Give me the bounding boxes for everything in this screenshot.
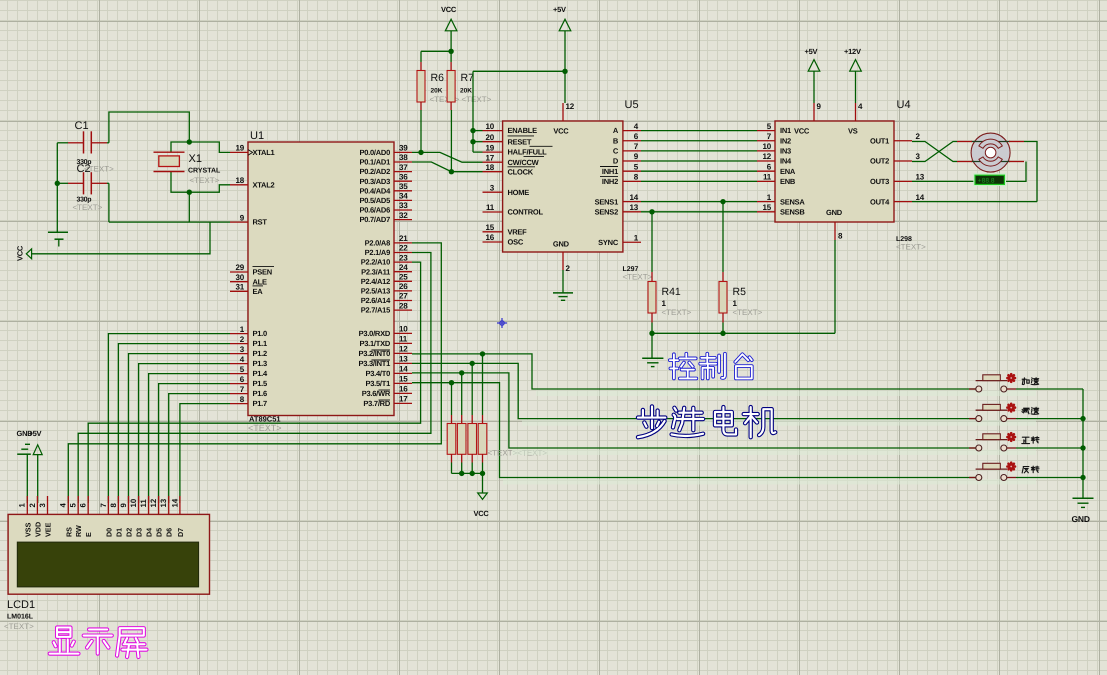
- svg-text:D6: D6: [165, 528, 174, 537]
- svg-text:R41: R41: [662, 286, 681, 298]
- svg-text:P0.3/AD3: P0.3/AD3: [359, 177, 390, 186]
- svg-text:CONTROL: CONTROL: [508, 208, 544, 217]
- svg-text:11: 11: [763, 173, 772, 182]
- svg-text:34: 34: [399, 192, 408, 201]
- svg-text:<TEXT>: <TEXT>: [84, 165, 114, 174]
- svg-text:15: 15: [399, 375, 408, 384]
- label 显示屏 (display): [50, 628, 147, 657]
- svg-text:SENS1: SENS1: [595, 197, 618, 206]
- button SW3 (正转): [969, 433, 1016, 451]
- svg-text:38: 38: [399, 153, 408, 162]
- svg-text:IN1: IN1: [780, 126, 791, 135]
- svg-text:P2.7/A15: P2.7/A15: [361, 306, 390, 315]
- svg-text:P0.1/AD1: P0.1/AD1: [359, 158, 390, 167]
- resistor R7: [447, 62, 492, 110]
- svg-text:13: 13: [630, 203, 639, 212]
- svg-text:32: 32: [399, 211, 408, 220]
- junction SENS2: [649, 209, 654, 214]
- svg-text:P1.7: P1.7: [253, 399, 268, 408]
- svg-text:13: 13: [399, 355, 408, 364]
- U5 GND bottom pin 2: [553, 240, 571, 274]
- wire OUT2 crossing to motor upper-left: [912, 142, 957, 162]
- svg-text:9: 9: [119, 503, 128, 508]
- svg-text:P2.5/A13: P2.5/A13: [361, 287, 390, 296]
- wire resistor pack common: [452, 472, 483, 474]
- wire OUT1 crossing to motor lower-left: [912, 142, 957, 162]
- svg-text:<TEXT>: <TEXT>: [73, 203, 103, 212]
- resistor pack RN1 (4 pull resistors): [447, 354, 547, 474]
- svg-text:E: E: [84, 532, 93, 537]
- svg-text:SENSA: SENSA: [780, 197, 805, 206]
- wire U5 GND down: [562, 270, 564, 293]
- svg-text:P0.2/AD2: P0.2/AD2: [359, 167, 390, 176]
- svg-text:18: 18: [486, 163, 495, 172]
- IC U1 AT89C51 body: [248, 142, 394, 416]
- ground (U5): [553, 293, 573, 300]
- power VCC (top): [441, 5, 457, 31]
- svg-text:28: 28: [399, 301, 408, 310]
- svg-text:VEE: VEE: [44, 522, 53, 537]
- svg-text:INH1: INH1: [602, 167, 618, 176]
- junction CLOCK/R7: [449, 169, 454, 174]
- svg-text:C1: C1: [75, 120, 89, 132]
- LCD1 pin names (rotated): [23, 522, 185, 537]
- junction ENABLE: [470, 128, 475, 133]
- wire SENS1 to SENSA: [641, 201, 757, 203]
- svg-text:24: 24: [399, 263, 408, 272]
- svg-text:39: 39: [399, 144, 408, 153]
- svg-text:<TEXT>: <TEXT>: [662, 308, 692, 317]
- tint bands under button wires (scan artifact): [503, 391, 1036, 485]
- wire P3.5 to button row4: [412, 383, 976, 478]
- svg-text:37: 37: [399, 163, 408, 172]
- junction R41 bottom: [649, 331, 654, 336]
- svg-text:P1.5: P1.5: [253, 379, 268, 388]
- svg-text:12: 12: [566, 102, 575, 111]
- svg-text:D4: D4: [145, 528, 154, 537]
- battery B1 (cell to ground): [48, 232, 68, 246]
- IC U5 L297 body: [503, 121, 623, 252]
- svg-text:20K: 20K: [431, 88, 443, 95]
- junction +5V: [562, 69, 567, 74]
- svg-text:VCC: VCC: [16, 245, 25, 261]
- svg-text:P3.5/T1: P3.5/T1: [365, 379, 390, 388]
- svg-text:16: 16: [399, 385, 408, 394]
- svg-text:RST: RST: [253, 218, 268, 227]
- svg-text:P0.7/AD7: P0.7/AD7: [359, 215, 390, 224]
- svg-text:HOME: HOME: [508, 188, 530, 197]
- svg-text:11: 11: [139, 499, 148, 508]
- svg-text:8: 8: [838, 232, 843, 241]
- svg-text:9: 9: [817, 102, 822, 111]
- svg-text:P2.3/A11: P2.3/A11: [361, 267, 390, 276]
- svg-text:+5V: +5V: [29, 429, 42, 438]
- U1 left pin stubs and numbers: [230, 144, 248, 404]
- wire button SW2 to GND rail: [1016, 418, 1083, 420]
- svg-text:4: 4: [858, 102, 863, 111]
- wire SENS2 to R41: [651, 212, 653, 272]
- svg-text:14: 14: [630, 193, 639, 202]
- wire R7 to CLOCK node: [450, 110, 452, 172]
- svg-text:SYNC: SYNC: [598, 238, 619, 247]
- LCD1 pin numbers (rotated): [18, 498, 180, 507]
- power +12V (above U4): [844, 47, 861, 71]
- svg-text:D0: D0: [104, 528, 113, 537]
- wire buttons GND rail: [1082, 389, 1084, 498]
- svg-text:U4: U4: [897, 99, 911, 111]
- svg-text:26: 26: [399, 282, 408, 291]
- svg-text:10: 10: [763, 142, 772, 151]
- power GND (near LCD): [17, 429, 34, 454]
- svg-text:25: 25: [399, 273, 408, 282]
- svg-text:LCD1: LCD1: [7, 599, 35, 611]
- svg-text:OUT3: OUT3: [870, 177, 889, 186]
- svg-text:C: C: [613, 147, 619, 156]
- svg-text:IN4: IN4: [780, 157, 792, 166]
- digital display +88.8: [974, 174, 1005, 185]
- svg-text:OUT4: OUT4: [870, 197, 890, 206]
- svg-text:LM016L: LM016L: [7, 614, 34, 621]
- wire ENABLE stub link: [473, 130, 483, 132]
- svg-text:EA: EA: [253, 287, 264, 296]
- svg-text:<TEXT>: <TEXT>: [733, 308, 763, 317]
- svg-text:23: 23: [399, 253, 408, 262]
- svg-text:P1.1: P1.1: [253, 339, 268, 348]
- svg-text:1: 1: [733, 299, 738, 308]
- wire button SW4 to GND rail: [1016, 477, 1083, 479]
- svg-text:7: 7: [99, 503, 108, 507]
- wire P2.2 to LCD E: [88, 262, 420, 503]
- svg-text:VCC: VCC: [474, 509, 490, 518]
- svg-text:P2.1/A9: P2.1/A9: [365, 248, 390, 257]
- wire P3.2 to button row1: [412, 354, 976, 389]
- svg-text:4: 4: [59, 503, 68, 508]
- U4 GND bottom pin 8: [826, 208, 843, 241]
- U4 VS top pin 4: [848, 102, 863, 135]
- U5 right pin names: [595, 126, 619, 247]
- svg-text:12: 12: [399, 345, 408, 354]
- U4 left pin names: [780, 126, 805, 216]
- svg-text:P1.6: P1.6: [253, 389, 268, 398]
- svg-text:VS: VS: [848, 126, 858, 135]
- svg-text:INH2: INH2: [602, 177, 618, 186]
- svg-text:GND: GND: [1072, 514, 1090, 524]
- svg-text:2: 2: [566, 264, 571, 273]
- svg-text:19: 19: [486, 143, 495, 152]
- svg-text:P3.0/RXD: P3.0/RXD: [359, 329, 391, 338]
- wire C1-C2 left vertical to battery: [56, 143, 58, 232]
- wire P3.4 to button row3: [412, 373, 976, 448]
- svg-text:17: 17: [399, 395, 408, 404]
- wire common to ground: [651, 333, 653, 358]
- wire +12V to U4 VS: [855, 71, 857, 103]
- junction C1/C2 left: [55, 181, 60, 186]
- svg-text:P0.6/AD6: P0.6/AD6: [359, 206, 390, 215]
- svg-text:P2.6/A14: P2.6/A14: [361, 296, 391, 305]
- wire button SW1 to GND rail: [1016, 388, 1083, 390]
- svg-text:RS: RS: [64, 527, 73, 537]
- wire crystal top tap: [171, 142, 189, 152]
- svg-text:<TEXT>: <TEXT>: [896, 243, 926, 252]
- svg-text:X1: X1: [189, 153, 202, 165]
- svg-text:10: 10: [129, 498, 138, 507]
- svg-text:30: 30: [236, 273, 245, 282]
- svg-text:13: 13: [159, 498, 168, 507]
- svg-text:VCC: VCC: [794, 126, 810, 135]
- power +5V (top): [553, 5, 571, 31]
- wire OUT3 to display: [912, 180, 975, 182]
- svg-text:27: 27: [399, 292, 408, 301]
- svg-text:U1: U1: [250, 130, 264, 142]
- label 步进电机 (stepper motor): [638, 406, 775, 437]
- wire C2 right to RST row: [108, 183, 110, 222]
- junction R5 bottom: [720, 331, 725, 336]
- LCD1 pin stubs: [27, 496, 180, 514]
- power VCC (down arrow under respack): [474, 493, 490, 518]
- U5 left pin names: [508, 126, 553, 246]
- svg-text:11: 11: [399, 335, 408, 344]
- svg-text:10: 10: [399, 325, 408, 334]
- svg-text:15: 15: [486, 223, 495, 232]
- svg-text:35: 35: [399, 182, 408, 191]
- wire P0.1 to CLOCK: [412, 162, 483, 172]
- svg-text:12: 12: [149, 498, 158, 507]
- wire VCC top to R6/R7: [450, 31, 452, 62]
- svg-text:CRYSTAL: CRYSTAL: [188, 168, 221, 175]
- button SW1 (加速): [969, 374, 1016, 392]
- wire HALF/FULL stub link: [473, 151, 483, 153]
- svg-text:VSS: VSS: [23, 522, 32, 537]
- wire C1 right up-over to crystal top: [109, 112, 189, 143]
- svg-text:3: 3: [38, 503, 47, 508]
- svg-text:CLOCK: CLOCK: [508, 167, 534, 176]
- svg-text:D3: D3: [135, 528, 144, 537]
- wire crystal bottom to RST row: [188, 192, 190, 222]
- power +5V (above U4): [805, 47, 820, 71]
- U1 right pin names: [358, 148, 391, 408]
- svg-text:OSC: OSC: [508, 238, 524, 247]
- svg-text:8: 8: [109, 503, 118, 508]
- svg-text:P0.5/AD5: P0.5/AD5: [359, 196, 390, 205]
- wire respack to VCC down: [482, 473, 484, 493]
- svg-text:P2.4/A12: P2.4/A12: [361, 277, 390, 286]
- wire P0.0 to CW/CCW: [412, 152, 483, 162]
- junction P0.0/R6: [418, 150, 423, 155]
- svg-text:R7: R7: [461, 72, 475, 84]
- svg-text:P3.4/T0: P3.4/T0: [365, 369, 390, 378]
- junction SENS1: [720, 199, 725, 204]
- svg-text:R6: R6: [431, 72, 445, 84]
- label 控制台 (control console): [670, 354, 752, 379]
- svg-text:10: 10: [486, 122, 495, 131]
- svg-text:ALE: ALE: [253, 277, 267, 286]
- svg-text:11: 11: [486, 203, 495, 212]
- button SW2 (减速): [969, 404, 1016, 422]
- svg-text:XTAL2: XTAL2: [253, 180, 275, 189]
- wire U4 GND to common: [834, 240, 836, 333]
- LCD display LCD1 LM016L body: [8, 514, 209, 594]
- junction rail SW4: [1080, 475, 1085, 480]
- wires U5 A-D INH1 INH2 to U4: [641, 131, 757, 182]
- stepper motor M1: [957, 133, 1024, 172]
- svg-text:IN3: IN3: [780, 147, 791, 156]
- svg-text:D7: D7: [176, 528, 185, 537]
- resistor R5: [719, 272, 763, 323]
- svg-text:P1.2: P1.2: [253, 349, 268, 358]
- junction rail SW3: [1080, 445, 1085, 450]
- svg-text:19: 19: [236, 144, 245, 153]
- svg-text:6: 6: [79, 503, 88, 508]
- svg-text:P2.2/A10: P2.2/A10: [361, 258, 390, 267]
- svg-text:16: 16: [486, 233, 495, 242]
- junction crystal top: [187, 139, 192, 144]
- svg-text:17: 17: [486, 153, 495, 162]
- svg-text:P1.3: P1.3: [253, 359, 268, 368]
- svg-text:P0.4/AD4: P0.4/AD4: [359, 186, 391, 195]
- wire display to motor lower-right: [1005, 162, 1027, 182]
- svg-text:D1: D1: [114, 528, 123, 537]
- wire OUT4 row: [912, 201, 1037, 203]
- wire P3.3 to button row2: [412, 363, 976, 418]
- svg-text:HALF/FULL: HALF/FULL: [508, 148, 548, 157]
- crystal X1: [154, 152, 222, 185]
- U5 left pin stubs and numbers: [483, 122, 503, 242]
- svg-text:VCC: VCC: [441, 5, 457, 14]
- capacitor C1: [57, 120, 109, 166]
- junction VCC top: [448, 49, 453, 54]
- resistor R6: [417, 62, 460, 110]
- svg-text:<TEXT>: <TEXT>: [190, 176, 220, 185]
- svg-text:20K: 20K: [460, 88, 472, 95]
- capacitor C2: [57, 163, 114, 212]
- svg-text:<TEXT>: <TEXT>: [248, 423, 282, 433]
- ground (mid, R41/R5): [642, 358, 663, 366]
- svg-text:D: D: [613, 157, 619, 166]
- svg-text:P1.0: P1.0: [253, 329, 268, 338]
- svg-text:ENB: ENB: [780, 177, 796, 186]
- svg-text:P0.0/AD0: P0.0/AD0: [359, 148, 390, 157]
- svg-text:33: 33: [399, 201, 408, 210]
- junction RESET: [470, 139, 475, 144]
- svg-text:+5V: +5V: [805, 47, 818, 56]
- ground (buttons) GND: [1072, 498, 1094, 524]
- svg-text:A: A: [613, 126, 619, 135]
- wire GND to LCD VSS: [26, 454, 28, 503]
- svg-text:18: 18: [236, 176, 245, 185]
- svg-text:15: 15: [763, 203, 772, 212]
- junctions respack common: [459, 471, 464, 476]
- resistor R41: [648, 272, 692, 323]
- wire SENS1 to R5: [722, 202, 724, 272]
- svg-text:PSEN: PSEN: [253, 268, 272, 277]
- svg-text:R5: R5: [733, 286, 747, 298]
- svg-text:P3.1/TXD: P3.1/TXD: [359, 339, 390, 348]
- svg-text:22: 22: [399, 244, 408, 253]
- svg-text:36: 36: [399, 172, 408, 181]
- wires P1.0-P1.7 to LCD D0-D7: [108, 334, 230, 503]
- svg-text:GND: GND: [826, 208, 843, 217]
- U4 right pin stubs and numbers: [894, 132, 925, 202]
- wire button SW3 to GND rail: [1016, 447, 1083, 449]
- wire +5V to LCD VDD: [37, 455, 39, 503]
- U1 right pin stubs and numbers: [394, 144, 412, 404]
- wire RESET stub link: [473, 141, 483, 143]
- svg-text:5: 5: [69, 503, 78, 508]
- svg-text:13: 13: [916, 173, 925, 182]
- wire crystal top to XTAL1: [189, 142, 230, 152]
- svg-text:14: 14: [916, 193, 925, 202]
- svg-text:B: B: [613, 136, 619, 145]
- wire +5V to U4 VCC: [813, 71, 815, 103]
- svg-text:31: 31: [236, 283, 245, 292]
- svg-text:VCC: VCC: [553, 126, 569, 135]
- U4 left pin stubs and numbers: [757, 122, 775, 212]
- button SW4 (反转): [969, 463, 1016, 481]
- svg-text:VREF: VREF: [508, 227, 528, 236]
- svg-text:GND: GND: [553, 240, 570, 249]
- U5 right pin stubs and numbers: [623, 122, 641, 243]
- svg-text:XTAL1: XTAL1: [253, 148, 275, 157]
- junction rail SW2: [1080, 416, 1085, 421]
- wire R6 to P0.0 node: [420, 110, 422, 152]
- wire motor top row to right loop: [1024, 142, 1037, 202]
- wire VCC-left to RST drop: [32, 222, 210, 254]
- svg-text:21: 21: [399, 234, 408, 243]
- svg-text:+5V: +5V: [553, 5, 566, 14]
- svg-text:1: 1: [18, 503, 27, 508]
- svg-text:P1.4: P1.4: [253, 369, 269, 378]
- svg-text:2: 2: [28, 503, 37, 508]
- U5 VCC top pin 12: [553, 102, 574, 135]
- junctions P3 rows to resistor pack: [480, 351, 485, 356]
- svg-text:D2: D2: [125, 528, 134, 537]
- button labels: [1022, 378, 1039, 473]
- svg-text:12: 12: [763, 152, 772, 161]
- U4 right pin names: [870, 136, 890, 206]
- svg-text:<TEXT>: <TEXT>: [4, 622, 34, 631]
- svg-text:RESET: RESET: [508, 137, 532, 146]
- wire crystal bottom to XTAL2: [189, 185, 230, 192]
- svg-text:U5: U5: [625, 99, 639, 111]
- svg-text:<TEXT>: <TEXT>: [462, 95, 492, 104]
- svg-text:20: 20: [486, 133, 495, 142]
- junction crystal bottom: [187, 190, 192, 195]
- power VCC (left arrow at RST net): [16, 245, 32, 261]
- svg-text:ENA: ENA: [780, 167, 796, 176]
- svg-text:<TEXT>: <TEXT>: [623, 273, 653, 282]
- U4 VCC top pin 9: [794, 102, 822, 135]
- svg-text:ENABLE: ENABLE: [508, 126, 538, 135]
- svg-text:1: 1: [662, 299, 667, 308]
- wire RST row: [109, 221, 230, 223]
- svg-text:+88.8: +88.8: [978, 178, 995, 185]
- wire crystal bottom tap: [171, 172, 189, 193]
- power +5V (near LCD): [29, 429, 43, 455]
- svg-text:SENSB: SENSB: [780, 207, 805, 216]
- svg-text:SENS2: SENS2: [595, 207, 618, 216]
- svg-text:OUT1: OUT1: [870, 136, 889, 145]
- wire SENS2 to SENSB: [641, 211, 757, 213]
- svg-text:29: 29: [236, 263, 245, 272]
- U1 left pin names: [248, 148, 275, 408]
- svg-text:14: 14: [170, 498, 179, 507]
- wire R41/R5/U4-GND common: [651, 323, 653, 334]
- wire P2.1 to LCD RW: [78, 253, 431, 504]
- IC U4 L298 body: [775, 121, 894, 222]
- svg-text:D5: D5: [155, 528, 164, 537]
- svg-text:CW/CCW: CW/CCW: [508, 158, 540, 167]
- svg-text:+12V: +12V: [844, 47, 861, 56]
